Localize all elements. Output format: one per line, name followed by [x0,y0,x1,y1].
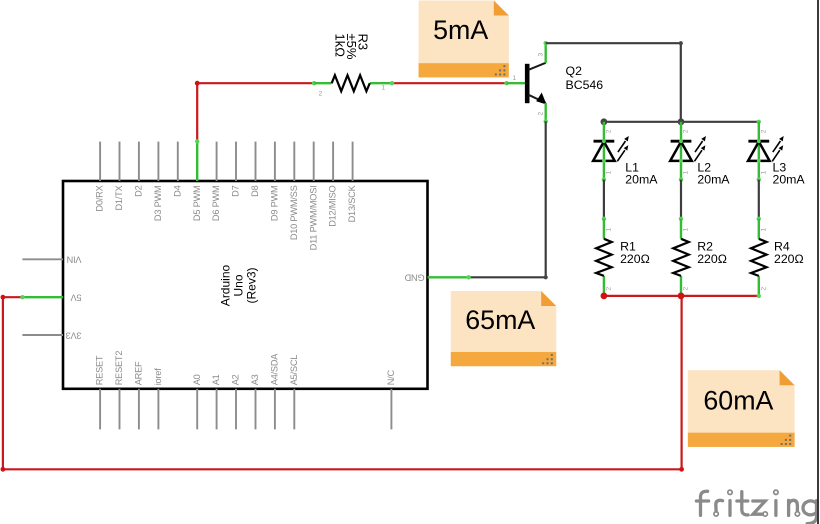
junction node rail/L1 [601,118,608,125]
svg-text:2: 2 [538,112,545,116]
svg-text:D8: D8 [250,185,260,196]
svg-text:1: 1 [760,171,767,175]
svg-text:A3: A3 [250,374,260,385]
wire L1 to resistor (black) [603,180,605,219]
wire D5 to R3 (red) [197,83,314,141]
LED L3 20mA [748,122,805,187]
svg-text:D11 PWM/MOSI: D11 PWM/MOSI [308,186,318,251]
svg-text:220Ω: 220Ω [620,252,650,266]
wire Q2 collector to LED rail (black) [546,43,681,122]
svg-text:220Ω: 220Ω [697,252,727,266]
svg-text:2: 2 [760,287,767,291]
wire R3 to Q2 base (red) [392,82,507,84]
svg-text:20mA: 20mA [697,172,730,186]
svg-text:ioref: ioref [153,368,163,386]
svg-text:GND: GND [404,273,424,283]
resistor R3 1k [314,34,392,98]
transistor Q2 BC546 [507,41,604,124]
svg-text:2: 2 [683,129,690,133]
svg-text:A1: A1 [211,374,221,385]
svg-text:D5 PWM: D5 PWM [192,186,202,222]
note 60mA [688,370,795,447]
svg-text:D9 PWM: D9 PWM [270,186,280,222]
svg-text:5mA: 5mA [433,15,488,45]
svg-text:1: 1 [683,228,690,232]
Arduino Uno (Rev3) module U1 [22,142,468,430]
svg-text:D1/TX: D1/TX [114,185,124,210]
resistor R4 220 ohm [751,219,804,296]
svg-text:5V: 5V [70,293,82,303]
svg-text:1: 1 [606,228,613,232]
svg-text:Arduino: Arduino [219,265,233,307]
LED anode rail (black) [604,121,759,123]
svg-text:D0/RX: D0/RX [95,185,105,211]
fritzing watermark logo [696,490,816,524]
svg-text:2: 2 [319,91,323,98]
svg-text:2: 2 [606,129,613,133]
note 65mA [451,291,556,366]
junction node rail/R1 [601,293,608,300]
svg-text:D10 PWM/SS: D10 PWM/SS [289,185,299,240]
LED L2 20mA [670,122,730,187]
svg-text:2: 2 [683,287,690,291]
svg-text:3: 3 [538,53,545,57]
window edge line right [817,0,819,524]
svg-text:A0: A0 [192,374,202,385]
resistor bottom rail (red) [604,295,759,297]
svg-text:1kΩ: 1kΩ [333,34,348,58]
svg-text:RESET: RESET [95,355,105,385]
svg-text:2: 2 [760,129,767,133]
svg-text:D12/MISO: D12/MISO [328,185,338,226]
svg-text:BC546: BC546 [566,78,604,92]
svg-text:220Ω: 220Ω [774,252,804,266]
svg-text:D3 PWM: D3 PWM [153,186,163,222]
window edge line right (over logo) [817,0,819,524]
svg-text:3V3: 3V3 [66,330,82,340]
svg-text:2: 2 [606,287,613,291]
svg-text:A5/SCL: A5/SCL [289,355,299,386]
resistor R2 220 ohm [673,219,727,296]
svg-text:20mA: 20mA [625,172,658,186]
svg-text:1: 1 [513,75,517,82]
junction node rail/L2 [678,118,685,125]
junction node rail/R2 [678,293,685,300]
svg-text:D7: D7 [231,185,241,196]
svg-text:1: 1 [760,228,767,232]
wire GND to Q2 emitter (green+black) [469,121,546,277]
svg-text:D2: D2 [134,185,144,196]
svg-text:Uno: Uno [232,274,246,296]
svg-text:(Rev3): (Rev3) [245,267,259,303]
svg-text:AREF: AREF [134,361,144,385]
svg-text:VIN: VIN [67,255,82,265]
svg-text:D4: D4 [172,185,182,196]
svg-text:1: 1 [683,171,690,175]
svg-text:60mA: 60mA [703,386,773,416]
svg-text:N/C: N/C [386,370,396,386]
svg-text:D6 PWM: D6 PWM [211,186,221,222]
note 5mA [419,1,509,78]
svg-text:Q2: Q2 [566,64,583,78]
svg-text:RESET2: RESET2 [114,351,124,386]
svg-text:A4/SDA: A4/SDA [270,353,280,386]
resistor R1 220 ohm [596,219,650,296]
svg-text:65mA: 65mA [465,305,535,335]
wire L3 to resistor (black) [758,180,760,219]
LED L1 20mA [593,122,658,187]
svg-text:1: 1 [606,171,613,175]
svg-text:20mA: 20mA [773,172,806,186]
svg-text:1: 1 [382,85,386,92]
wire L2 to resistor (black) [680,180,682,219]
svg-text:D13/SCK: D13/SCK [347,184,357,222]
wire rail to 5V (red return path) [3,296,682,469]
svg-text:A2: A2 [231,374,241,385]
